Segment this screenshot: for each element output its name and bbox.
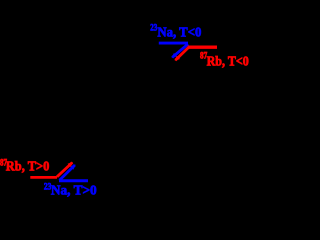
svg-text:Rb, T<0: Rb, T<0 <box>207 54 249 69</box>
svg-text:Na, T>0: Na, T>0 <box>51 183 97 198</box>
svg-text:Na, T<0: Na, T<0 <box>157 25 201 40</box>
svg-text:Rb, T>0: Rb, T>0 <box>6 160 50 175</box>
